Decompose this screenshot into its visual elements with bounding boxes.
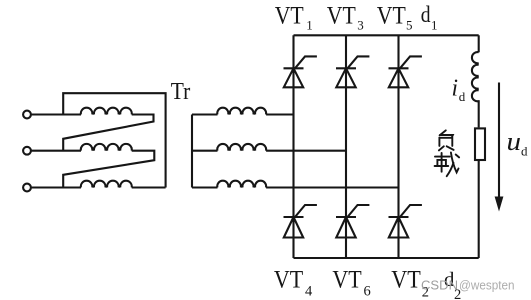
- svg-text:4: 4: [305, 284, 313, 300]
- secondary winding coil S2: [217, 144, 266, 151]
- char 载 dian: [456, 155, 459, 158]
- wire bottom bus: [294, 257, 479, 259]
- wire phase B input: [31, 150, 81, 152]
- terminal B circle: [23, 147, 31, 155]
- label 负载 (load) hand-drawn strokes: [435, 130, 460, 176]
- secondary winding coil S3: [217, 181, 266, 188]
- char 负 stroke henggou: [440, 135, 453, 138]
- wire coil P3 to right rail: [132, 186, 166, 188]
- terminal C circle: [23, 184, 31, 192]
- wire phase A input: [31, 113, 81, 115]
- inductor d1 coil: [472, 52, 479, 101]
- arrow ud direction: [498, 83, 500, 199]
- wire secondary row c lead: [192, 186, 218, 188]
- wire inductor to load: [478, 100, 480, 127]
- svg-text:VT: VT: [377, 2, 406, 29]
- thyristor VT1: [284, 56, 317, 87]
- wire secondary star bus: [191, 115, 193, 188]
- svg-text:VT: VT: [327, 2, 356, 29]
- svg-text:d: d: [459, 89, 466, 104]
- thyristor VT5: [389, 56, 422, 87]
- char 载 xiegou: [451, 152, 459, 172]
- load resistor box: [475, 128, 485, 160]
- svg-text:5: 5: [406, 18, 413, 33]
- char 载 vertical: [441, 153, 443, 172]
- wire secondary a to leg 1: [266, 113, 293, 115]
- arrowhead ud: [495, 197, 504, 212]
- wire bridge leg 1: [292, 35, 294, 258]
- svg-text:VT: VT: [274, 267, 303, 294]
- svg-text:VT: VT: [332, 267, 361, 294]
- svg-text:6: 6: [364, 284, 371, 300]
- wire secondary row a lead: [192, 113, 218, 115]
- thyristor VT6: [336, 205, 369, 238]
- char 载 pie: [447, 163, 454, 176]
- wire phase C input: [31, 186, 81, 188]
- svg-text:@wespten: @wespten: [459, 278, 515, 292]
- wire bridge leg 3: [397, 35, 399, 258]
- char 载 lower horizontal: [435, 165, 449, 167]
- svg-text:i: i: [452, 76, 459, 102]
- thyristor VT4: [284, 205, 317, 238]
- primary winding coil P1: [81, 108, 132, 115]
- wire coil P2 to delta junction C: [63, 151, 154, 188]
- primary winding coil P3: [81, 181, 132, 188]
- svg-text:1: 1: [306, 18, 313, 33]
- svg-text:VT: VT: [275, 2, 304, 29]
- svg-text:d: d: [421, 2, 431, 27]
- thyristor VT3: [336, 56, 369, 87]
- terminal A circle: [23, 111, 31, 119]
- wire secondary b to leg 2: [266, 150, 346, 152]
- svg-text:Tr: Tr: [171, 79, 191, 105]
- svg-text:VT: VT: [391, 267, 421, 294]
- svg-text:d: d: [521, 143, 528, 158]
- char 负 stroke pie: [440, 130, 446, 135]
- wire load to bottom bus: [478, 161, 480, 258]
- svg-text:3: 3: [357, 18, 364, 33]
- thyristor VT2: [389, 205, 422, 238]
- secondary winding coil S1: [217, 108, 266, 115]
- char 负 legs: [439, 146, 454, 150]
- svg-text:CSDN: CSDN: [421, 278, 458, 292]
- wire bridge leg 2: [345, 35, 347, 258]
- char 载 top horizontal: [435, 156, 450, 158]
- wire coil P1 to delta junction B: [63, 115, 153, 151]
- wire right branch top: [478, 35, 480, 52]
- char 负 component bei box: [439, 138, 452, 146]
- wire secondary c to leg 3: [266, 186, 398, 188]
- svg-text:1: 1: [431, 18, 438, 33]
- wire delta return rail (coil P3 end to phase A): [63, 93, 165, 187]
- primary winding coil P2: [81, 144, 132, 151]
- svg-text:u: u: [507, 127, 522, 156]
- char 载 small box: [437, 160, 446, 166]
- wire secondary row b lead: [192, 150, 218, 152]
- wire top bus: [294, 34, 479, 36]
